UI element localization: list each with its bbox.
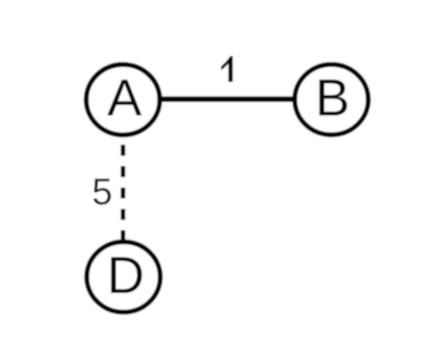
label weight 1 (edge A-B) [221,56,233,82]
svg-text:D: D [107,247,145,305]
node D [87,242,161,312]
wire edge A-D (dashed) [121,145,125,241]
node B [295,64,369,134]
node A [86,65,160,135]
wire edge A-B (solid) [123,96,332,102]
svg-text:A: A [107,70,142,128]
svg-text:B: B [315,70,350,128]
svg-text:5: 5 [92,171,113,212]
